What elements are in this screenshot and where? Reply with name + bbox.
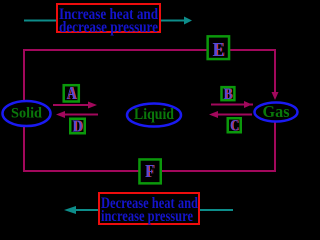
- svg-text:A: A: [67, 83, 77, 103]
- svg-text:Liquid: Liquid: [134, 106, 174, 123]
- arrow D: Liquid to Solid (left): [64, 114, 98, 116]
- arrow A: Solid to Liquid (right): [53, 104, 89, 106]
- box: letter C: [228, 118, 241, 132]
- svg-text:D: D: [72, 116, 82, 135]
- svg-text:Gas: Gas: [263, 102, 291, 121]
- svg-text:increase pressure: increase pressure: [101, 208, 193, 225]
- box: letter F: [139, 159, 160, 183]
- arrow C: Gas to Liquid (left): [217, 114, 252, 116]
- wire: purple right vertical upper into Gas: [274, 49, 276, 93]
- box: letter A: [64, 85, 79, 101]
- box: letter D: [70, 119, 85, 134]
- svg-text:decrease pressure: decrease pressure: [59, 19, 158, 36]
- arrowhead: bottom teal arrow (left): [64, 206, 76, 214]
- wire: purple left vertical through Solid: [23, 49, 25, 172]
- wire: purple top horizontal (Solid to Gas via E): [23, 49, 276, 51]
- wire: top teal arrow line: [24, 20, 185, 22]
- node: Liquid oval: [127, 104, 181, 127]
- svg-text:Solid: Solid: [11, 106, 43, 122]
- wire: bottom teal arrow line: [75, 209, 233, 211]
- node: Solid oval: [3, 101, 51, 126]
- wire: purple bottom horizontal through F: [23, 170, 276, 172]
- svg-text:B: B: [223, 86, 232, 103]
- box: bottom label "Decrease heat and increase pressure": [99, 193, 199, 224]
- arrowhead: purple down into Gas: [272, 92, 279, 100]
- box: letter E: [208, 36, 229, 59]
- node: Gas oval: [255, 103, 298, 122]
- wire: purple right vertical lower below Gas: [274, 121, 276, 172]
- box: letter B: [222, 87, 235, 100]
- svg-text:F: F: [145, 161, 154, 181]
- svg-text:E: E: [213, 39, 225, 61]
- svg-text:C: C: [230, 117, 239, 134]
- arrowhead: top teal arrow (right): [184, 17, 192, 25]
- box: top label "Increase heat and decrease pressure": [57, 4, 160, 32]
- arrow B: Liquid to Gas (right): [211, 104, 253, 106]
